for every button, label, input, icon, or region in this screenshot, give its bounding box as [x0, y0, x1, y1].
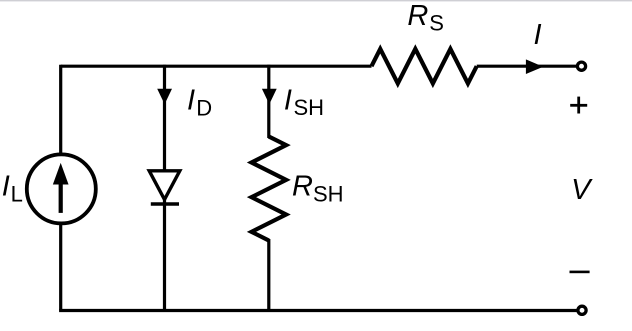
svg-text:I: I [2, 170, 10, 202]
current arrow ISH [262, 89, 277, 104]
wire left [59, 65, 62, 311]
svg-text:V: V [571, 174, 593, 206]
svg-text:I: I [187, 84, 195, 116]
terminal top right [577, 62, 585, 70]
svg-text:S: S [429, 10, 444, 35]
svg-text:I: I [534, 19, 542, 51]
label IL [2, 170, 23, 206]
label ISH [284, 84, 324, 120]
svg-text:R: R [407, 0, 428, 32]
wire shunt branch [267, 65, 270, 311]
current arrow I [526, 59, 543, 74]
label RS [407, 0, 443, 35]
svg-text:SH: SH [313, 182, 344, 207]
resistor RS [372, 49, 477, 84]
wire top [61, 65, 577, 68]
terminal bottom right [578, 306, 586, 314]
current source IL [27, 154, 96, 223]
wire diode branch [163, 65, 166, 311]
label RSH [292, 170, 344, 206]
label ID [187, 84, 212, 120]
label minus [570, 271, 590, 274]
svg-text:D: D [196, 95, 212, 120]
diode D1 [149, 171, 180, 204]
label plus [570, 97, 587, 114]
resistor RSH [252, 137, 287, 241]
svg-text:L: L [11, 182, 23, 207]
svg-text:I: I [284, 84, 292, 116]
current arrow ID [157, 89, 172, 104]
svg-text:SH: SH [294, 95, 325, 120]
wire bottom [59, 309, 576, 312]
svg-text:R: R [292, 170, 313, 202]
